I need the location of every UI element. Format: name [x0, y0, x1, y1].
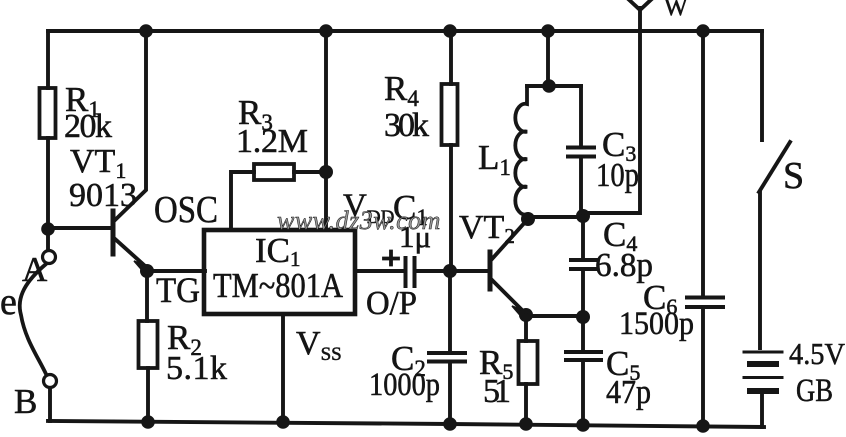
node C6 top rail: [696, 24, 710, 38]
node R5 bottom: [519, 417, 533, 431]
wire O/P output: [355, 269, 404, 273]
wire emitter node to C4/C5 node: [526, 314, 583, 318]
wire R1 bottom to node: [46, 138, 50, 229]
transistor VT2: [488, 252, 493, 289]
wire VT2 base: [450, 269, 488, 273]
node C4 bottom: [576, 310, 590, 324]
svg-text:B: B: [14, 382, 37, 421]
inductor L1: [515, 86, 527, 217]
node VT2 emitter: [519, 308, 533, 322]
node C1/R4/VT2 base: [443, 264, 457, 278]
wire tank feed from rail: [546, 31, 550, 86]
wire tank top: [527, 84, 581, 88]
wire left column top (rail to R1): [46, 31, 50, 88]
wire B to bottom rail: [48, 388, 52, 421]
wire R4 bottom to node: [449, 145, 453, 271]
resistor R4: [442, 84, 458, 145]
resistor R1: [40, 88, 56, 138]
wire VDD column: [324, 31, 328, 230]
wire C1 to node: [416, 269, 450, 273]
svg-text:51: 51: [483, 373, 511, 410]
node VT1 emitter junction: [140, 264, 154, 278]
node top rail VT1 collector: [139, 24, 153, 38]
node C6 bottom: [696, 419, 710, 433]
wire flexible A to B: [20, 264, 46, 374]
wire R3 right lead: [294, 170, 326, 174]
wire OSC pin: [231, 172, 254, 230]
svg-text:4.5V: 4.5V: [789, 336, 846, 371]
switch S: [760, 31, 764, 140]
svg-text:1.2M: 1.2M: [236, 123, 308, 160]
wire node to C2: [448, 271, 452, 352]
svg-text:A: A: [22, 250, 48, 289]
svg-text:W: W: [664, 0, 688, 21]
svg-text:1000p: 1000p: [369, 367, 440, 403]
battery GB: [744, 351, 782, 354]
resistor R3: [254, 164, 294, 180]
capacitor C4: [581, 216, 585, 259]
capacitor C1: [404, 258, 408, 286]
svg-text:1500p: 1500p: [619, 306, 694, 342]
svg-text:TM~801A: TM~801A: [213, 266, 344, 305]
node R2 bottom: [141, 415, 155, 429]
capacitor C3: [579, 86, 583, 146]
node VT2 collector / tank bottom left: [521, 212, 535, 226]
svg-text:20k: 20k: [64, 108, 112, 145]
svg-text:TG: TG: [156, 270, 200, 310]
wire VSS pin to bottom rail: [281, 315, 285, 422]
wire base of VT1: [48, 226, 111, 230]
wire top rail: [48, 29, 762, 33]
svg-text:S: S: [783, 155, 804, 197]
wire emitter to R5: [524, 315, 528, 341]
resistor R2: [139, 321, 158, 368]
svg-text:10p: 10p: [596, 157, 639, 194]
node tank top rail: [541, 24, 555, 38]
wire R4 column top: [449, 31, 453, 84]
node R3 to VDD line: [319, 165, 333, 179]
svg-text:9013: 9013: [69, 177, 137, 214]
svg-text:IC1: IC1: [255, 231, 301, 271]
svg-text:GB: GB: [796, 373, 833, 409]
wire bottom rail: [48, 421, 764, 427]
svg-text:OSC: OSC: [154, 189, 218, 231]
svg-text:e: e: [0, 281, 17, 323]
wire node to R2: [145, 271, 149, 321]
svg-text:5.1k: 5.1k: [166, 350, 227, 387]
capacitor C5: [581, 317, 585, 351]
wire C2 to bottom rail: [448, 362, 452, 424]
svg-text:30k: 30k: [384, 107, 429, 144]
svg-text:R4: R4: [384, 69, 419, 111]
antenna W: [583, 8, 640, 213]
node R4 top rail: [443, 24, 457, 38]
resistor R5: [519, 341, 538, 384]
node tank top: [542, 79, 556, 93]
node VSS bottom: [276, 415, 290, 429]
svg-text:O/P: O/P: [366, 285, 417, 322]
node C2 bottom: [443, 417, 457, 431]
capacitor C6: [687, 296, 723, 300]
wire R2 to bottom rail: [146, 368, 150, 422]
svg-text:www.dz3w.com: www.dz3w.com: [277, 206, 441, 235]
op-amp IC1 box: [204, 230, 355, 314]
wire C6 column: [701, 31, 705, 297]
svg-text:47p: 47p: [606, 374, 651, 411]
wire R5 to bottom rail: [524, 384, 528, 424]
terminal B: [44, 375, 57, 388]
svg-text:VSS: VSS: [296, 325, 342, 365]
transistor VT1: [111, 211, 116, 254]
node C5 bottom: [576, 418, 590, 432]
node base junction: [41, 222, 55, 236]
capacitor C2: [429, 351, 465, 355]
wire emitter to TG pin: [147, 269, 205, 273]
svg-text:L1: L1: [478, 138, 511, 180]
svg-text:VT2: VT2: [459, 209, 515, 248]
terminal A: [46, 234, 50, 250]
node VDD top rail: [319, 24, 333, 38]
node C3 bottom / C4 top / antenna tap: [576, 209, 590, 223]
wire tank bottom: [529, 215, 583, 219]
